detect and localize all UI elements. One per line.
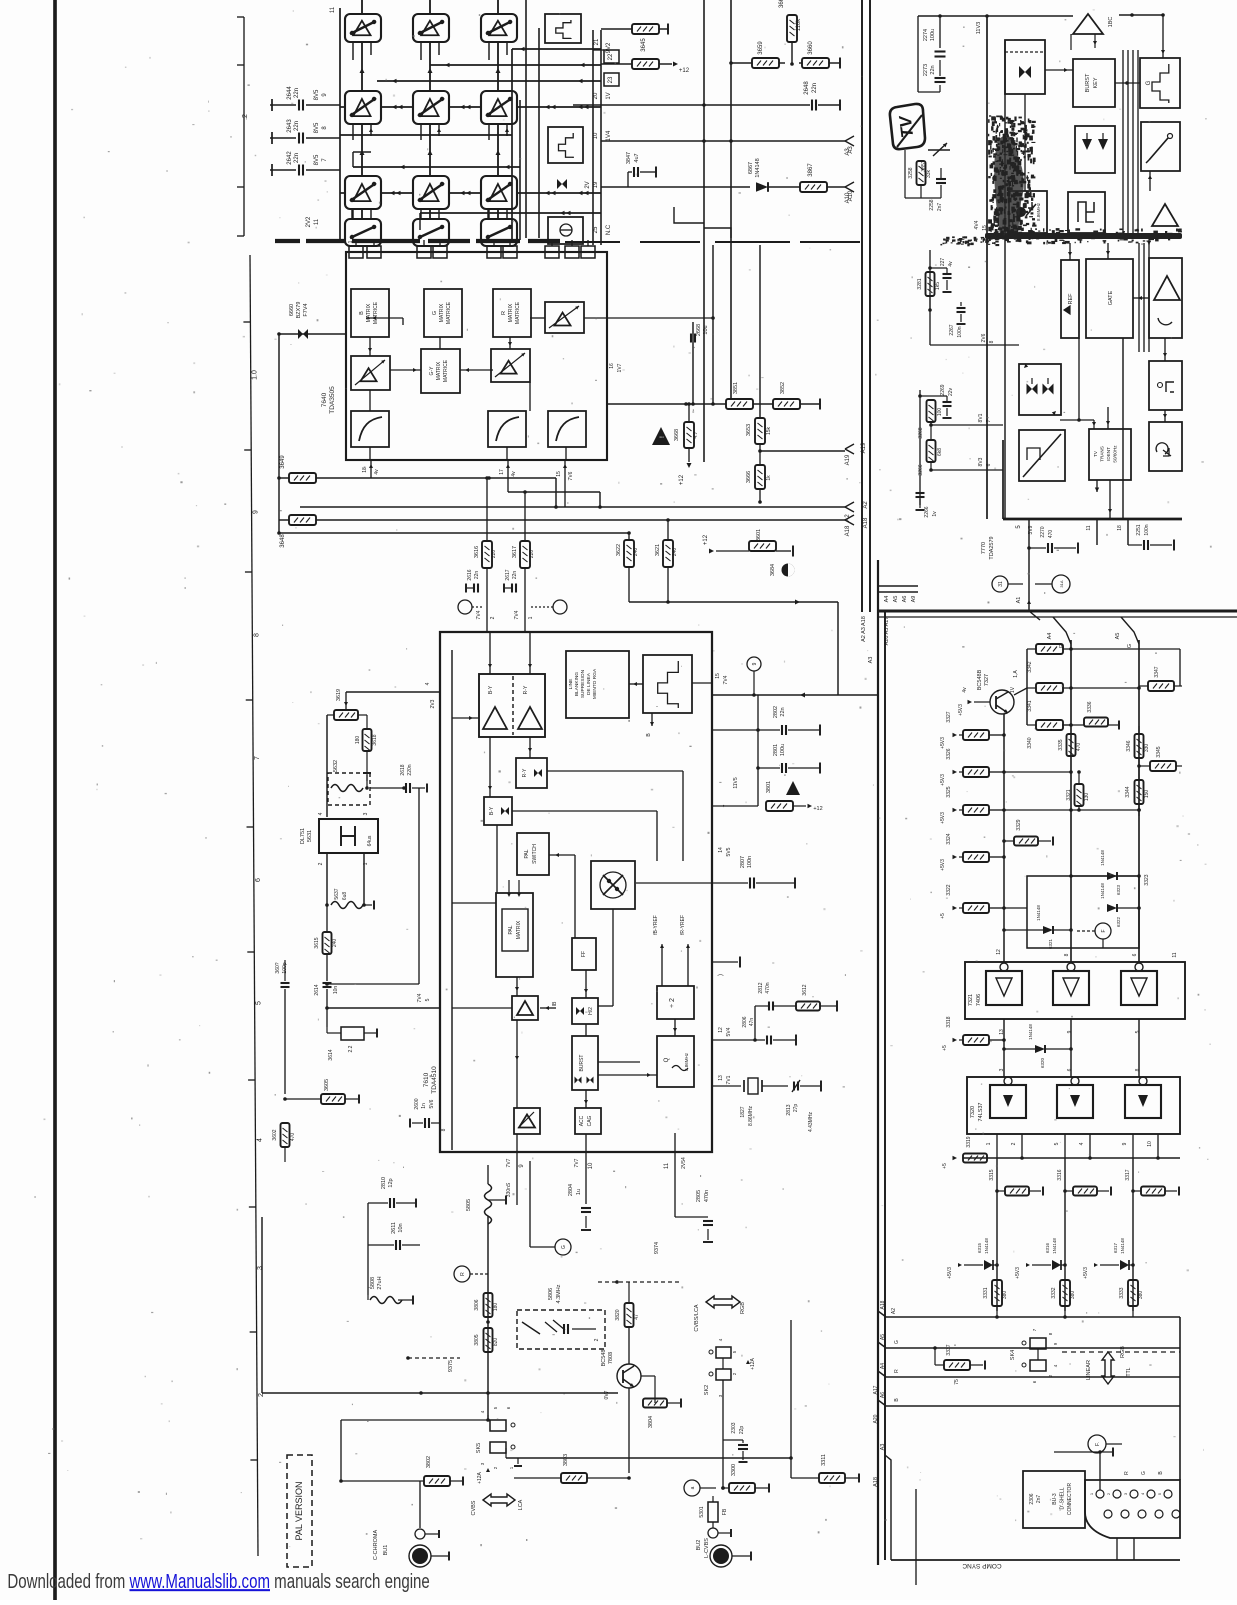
svg-text:3332: 3332 [1051,1287,1057,1298]
svg-text:2804: 2804 [568,1184,574,1196]
svg-text:1: 1 [528,616,534,619]
svg-text:MATRIX: MATRIX [516,920,522,939]
svg-text:FF: FF [581,951,587,957]
svg-text:2V54: 2V54 [681,1157,687,1169]
svg-text:3806: 3806 [474,1299,480,1310]
svg-text:47: 47 [634,1314,640,1320]
svg-text:2617: 2617 [505,569,511,580]
svg-text:3648: 3648 [280,534,286,548]
svg-text:22v: 22v [948,387,954,396]
svg-text:+12: +12 [703,534,709,545]
svg-text:÷ 2: ÷ 2 [669,998,676,1008]
svg-text:7320: 7320 [970,1106,976,1118]
svg-text:4.43MHz: 4.43MHz [808,1112,814,1133]
svg-text:3619: 3619 [336,689,342,701]
svg-text:27uH: 27uH [377,1276,383,1289]
svg-text:2.2: 2.2 [348,1045,354,1052]
svg-text:LINEAR: LINEAR [1086,1360,1092,1380]
svg-text:N.C: N.C [606,224,612,235]
svg-text:TTL: TTL [1126,1367,1132,1376]
svg-text:+5V3: +5V3 [940,859,946,871]
svg-text:A1: A1 [1016,597,1022,604]
svg-text:7V4: 7V4 [723,675,729,684]
svg-text:1N4148: 1N4148 [984,1238,989,1254]
svg-text:2: 2 [318,862,324,865]
svg-text:SUPRESION: SUPRESION [580,669,586,698]
svg-text:3645: 3645 [641,38,647,52]
svg-text:A19: A19 [845,454,851,465]
svg-text:BC548: BC548 [601,1350,607,1367]
svg-text:4v: 4v [374,469,380,475]
svg-text:4: 4 [256,1138,263,1142]
svg-text:fR-YREF: fR-YREF [680,915,686,935]
svg-text:A20: A20 [873,1414,879,1423]
svg-text:2266: 2266 [924,506,930,517]
svg-text:3653: 3653 [746,424,752,436]
svg-text:BU-3: BU-3 [1052,1493,1058,1505]
svg-text:6322: 6322 [1116,916,1121,927]
svg-text:227: 227 [940,258,946,267]
svg-text:CAG: CAG [587,1115,593,1126]
svg-text:3335: 3335 [1058,739,1064,750]
svg-text:3851: 3851 [733,382,739,394]
svg-text:3617: 3617 [512,546,518,558]
svg-text:PAL: PAL [524,849,530,858]
svg-text:47n: 47n [749,1018,755,1027]
svg-text:3344: 3344 [1125,786,1131,797]
svg-text:SWITCH: SWITCH [532,844,538,864]
svg-text:9V2: 9V2 [606,42,612,53]
svg-text:R: R [894,1369,900,1373]
svg-text:75: 75 [954,1379,960,1385]
svg-text:3605: 3605 [324,1079,330,1091]
svg-text:2618: 2618 [400,764,406,775]
svg-text:FB: FB [722,1508,728,1515]
svg-text:7: 7 [416,240,422,243]
svg-text:IDENT: IDENT [1106,447,1111,461]
svg-text:G: G [894,1340,900,1344]
svg-text:B-Y: B-Y [489,806,495,815]
svg-text:2258: 2258 [929,199,935,210]
svg-text:11: 11 [1086,525,1092,530]
svg-text:3684: 3684 [770,564,776,576]
svg-text:A5: A5 [1115,633,1121,640]
svg-text:1V7: 1V7 [617,363,623,372]
svg-text:+12A: +12A [477,1471,483,1483]
svg-text:11: 11 [664,1162,670,1169]
svg-text:RGB: RGB [740,1302,746,1314]
svg-text:3621: 3621 [655,544,661,556]
svg-text:COMP SYNC: COMP SYNC [962,1562,1002,1569]
svg-text:1k: 1k [766,475,772,481]
svg-text:MATRIX: MATRIX [366,303,372,322]
svg-text:A4: A4 [1047,633,1053,640]
svg-text:100: 100 [937,408,943,417]
svg-text:9: 9 [253,510,260,514]
svg-text:+5V3: +5V3 [958,704,964,716]
svg-text:470n: 470n [765,982,771,993]
svg-text:A18: A18 [845,525,851,536]
svg-text:4v: 4v [948,261,954,267]
svg-text:3803: 3803 [563,1454,569,1466]
svg-text:2807: 2807 [740,856,746,868]
svg-text:A3: A3 [848,146,854,154]
svg-text:A20 A3 A17: A20 A3 A17 [884,617,890,646]
svg-text:5301: 5301 [699,1506,705,1517]
svg-text:1N4148: 1N4148 [1120,1238,1125,1254]
svg-text:7327: 7327 [984,674,990,686]
svg-text:BURST: BURST [579,1055,585,1072]
svg-text:2810: 2810 [381,1177,387,1189]
svg-text:B: B [359,311,365,315]
svg-text:27p: 27p [793,1104,799,1113]
svg-text:7770: 7770 [981,542,987,554]
svg-text:2648: 2648 [804,81,810,95]
svg-text:3300: 3300 [731,1464,737,1476]
svg-text:8V5: 8V5 [314,122,320,133]
svg-text:A6: A6 [902,596,908,603]
svg-text:3616: 3616 [474,546,480,558]
svg-text:3327: 3327 [946,711,952,722]
svg-text:IB: IB [552,1001,558,1006]
svg-text:3804: 3804 [648,1416,654,1428]
svg-text:CVBS/LCA: CVBS/LCA [694,1304,700,1332]
svg-text:11: 11 [1172,952,1178,957]
svg-text:RGB: RGB [1120,1346,1126,1358]
svg-text:R: R [1124,1471,1130,1475]
svg-text:22n: 22n [294,153,300,163]
svg-text:3614: 3614 [328,1049,334,1060]
svg-text:+5V3: +5V3 [1015,1267,1021,1279]
svg-text:MATRICE: MATRICE [446,301,452,324]
svg-text:2642: 2642 [287,151,293,165]
svg-text:820: 820 [493,1338,499,1347]
svg-text:C-CHROMA: C-CHROMA [373,1530,379,1561]
svg-text:64us: 64us [367,835,373,846]
svg-text:11V5: 11V5 [733,777,739,789]
svg-text:3317: 3317 [1125,1169,1131,1180]
svg-text:3: 3 [999,1068,1005,1071]
svg-text:DL751: DL751 [300,828,306,844]
svg-text:MATRICE: MATRICE [515,301,521,324]
svg-text:SK4: SK4 [1010,1350,1016,1360]
svg-text:7V7: 7V7 [506,1158,512,1167]
svg-text:22n: 22n [930,65,936,74]
svg-text:7V4: 7V4 [476,610,482,619]
svg-text:3324: 3324 [946,833,952,844]
svg-text:R: R [501,311,507,315]
svg-text:10u: 10u [703,325,709,334]
svg-text:TDA4510: TDA4510 [431,1066,438,1094]
svg-text:7: 7 [486,240,492,243]
svg-text:7V4: 7V4 [417,993,423,1002]
svg-text:B-Y: B-Y [488,685,494,694]
svg-text:1N4148: 1N4148 [1100,883,1105,899]
svg-text:8V3: 8V3 [978,457,984,466]
svg-text:CVBS: CVBS [471,1500,477,1515]
svg-text:7V6: 7V6 [568,471,574,480]
svg-text:1.0: 1.0 [252,370,259,380]
svg-text:5631: 5631 [307,830,313,842]
svg-text:2616: 2616 [467,569,473,580]
svg-text:2303: 2303 [731,1422,737,1433]
svg-text:A3: A3 [868,657,874,664]
svg-text:+12: +12 [679,68,690,74]
svg-text:11: 11 [330,6,336,13]
svg-text:10n: 10n [333,986,339,995]
svg-text:+12: +12 [813,806,822,812]
svg-text:100n: 100n [747,856,753,868]
svg-text:2812: 2812 [758,982,764,993]
svg-text:A19: A19 [861,442,867,453]
svg-text:3337: 3337 [946,1344,952,1355]
svg-text:3852: 3852 [780,382,786,394]
svg-text:2: 2 [1011,1142,1017,1145]
svg-text:R-Y: R-Y [523,685,529,694]
svg-text:18: 18 [1117,525,1123,531]
svg-text:2306: 2306 [1029,1493,1035,1504]
svg-text:5V6: 5V6 [429,1099,435,1108]
svg-text:A18: A18 [873,1477,879,1487]
svg-text:5: 5 [1135,1030,1141,1033]
svg-text:15k: 15k [766,426,772,435]
svg-text:14: 14 [718,847,724,853]
svg-text:1N4148: 1N4148 [1036,905,1041,921]
svg-text:+5: +5 [940,913,946,919]
svg-text:2269: 2269 [940,384,946,395]
svg-text:8: 8 [253,633,260,637]
svg-text:23: 23 [608,76,614,83]
svg-text:7321: 7321 [968,994,974,1006]
svg-text:+12: +12 [679,474,685,485]
svg-text:1N4148: 1N4148 [755,158,761,177]
svg-text:9374: 9374 [654,1242,660,1254]
svg-text:1N4148: 1N4148 [1052,1238,1057,1254]
svg-text:3666: 3666 [746,471,752,483]
svg-text:1,A: 1,A [1013,670,1019,678]
svg-text:3341: 3341 [1027,700,1033,711]
svg-text:3266: 3266 [918,464,924,475]
svg-text:2801: 2801 [773,744,779,756]
svg-text:4V4: 4V4 [974,220,980,229]
svg-text:2n7: 2n7 [1036,1495,1042,1504]
svg-text:7V4: 7V4 [514,610,520,619]
svg-text:8: 8 [1135,1068,1141,1071]
svg-text:MATRICE: MATRICE [443,359,449,382]
svg-text:6660: 6660 [289,304,295,316]
svg-text:3315: 3315 [989,1169,995,1180]
svg-text:2n7: 2n7 [937,203,943,212]
svg-text:4: 4 [318,812,324,815]
svg-text:4.7: 4.7 [693,431,699,438]
svg-text:180: 180 [493,1303,499,1312]
svg-text:PAL: PAL [508,925,514,934]
svg-text:100n: 100n [1144,524,1150,535]
svg-text:100n: 100n [957,326,963,337]
svg-text:3612: 3612 [802,984,808,995]
svg-text:9375: 9375 [448,1360,454,1372]
svg-text:1: 1 [348,240,354,243]
svg-text:TV: TV [1093,450,1098,457]
svg-text:10n: 10n [398,1223,404,1232]
svg-text:+5: +5 [942,1045,948,1051]
svg-text:1827: 1827 [740,1106,746,1117]
svg-text:6867: 6867 [748,162,754,174]
svg-text:470n: 470n [704,1190,710,1202]
svg-text:3622: 3622 [616,544,622,556]
svg-text:7406: 7406 [976,994,982,1006]
svg-text:16: 16 [609,363,615,369]
svg-text:2270: 2270 [1040,526,1046,537]
svg-text:3346: 3346 [1126,740,1132,751]
svg-text:3319: 3319 [966,1136,972,1147]
svg-text:380: 380 [1070,1291,1076,1300]
svg-text:MATRIX: MATRIX [439,303,445,322]
svg-text:3820: 3820 [615,1309,621,1320]
svg-text:6315: 6315 [977,1242,982,1253]
svg-text:1: 1 [986,1142,992,1145]
svg-text:A4: A4 [884,596,890,603]
svg-text:5637: 5637 [334,888,340,899]
svg-text:3323: 3323 [1144,874,1150,885]
svg-text:3336: 3336 [1087,701,1093,712]
svg-text:6321: 6321 [1048,938,1053,949]
svg-text:15: 15 [715,673,721,679]
svg-text:2V3: 2V3 [430,699,436,708]
svg-text:2802: 2802 [773,706,779,718]
svg-text:ACC: ACC [579,1115,585,1126]
svg-text:8.86MHz: 8.86MHz [684,1052,689,1071]
svg-text:7610: 7610 [423,1072,430,1087]
svg-text:2614: 2614 [314,984,320,995]
svg-text:5V5: 5V5 [726,847,732,856]
svg-text:3333: 3333 [1119,1287,1125,1298]
svg-text:4.3MHz: 4.3MHz [556,1284,562,1303]
svg-text:7640: 7640 [321,392,328,407]
svg-text:+5V3: +5V3 [940,774,946,786]
svg-text:3659: 3659 [758,41,764,55]
svg-text:3321: 3321 [1066,789,1072,800]
svg-text:5808: 5808 [370,1277,376,1289]
svg-text:7: 7 [723,804,729,807]
svg-text:Downloaded from www.Manualslib: Downloaded from www.Manualslib.com manua… [7,1570,429,1593]
svg-text:7803: 7803 [608,1352,614,1364]
svg-text:5: 5 [256,1001,263,1005]
svg-text:3668: 3668 [674,429,680,441]
svg-text:10: 10 [588,1162,594,1169]
svg-text:A9: A9 [911,596,917,603]
svg-text:2: 2 [594,1338,600,1341]
svg-text:1u: 1u [576,1189,582,1195]
svg-text:2V2: 2V2 [306,216,312,227]
svg-text:7V1: 7V1 [726,1075,732,1084]
svg-text:22n: 22n [812,83,818,93]
svg-text:fB-YREF: fB-YREF [653,915,659,935]
svg-text:3322: 3322 [946,884,952,895]
svg-text:3347: 3347 [1154,666,1160,677]
svg-text:2813: 2813 [786,1104,792,1115]
svg-text:6: 6 [1067,1068,1073,1071]
svg-text:1V: 1V [606,92,612,99]
svg-text:7: 7 [986,419,992,422]
svg-text:GATE: GATE [1108,290,1114,305]
svg-text:2V: 2V [585,181,591,188]
svg-text:1N4148: 1N4148 [1028,1024,1033,1040]
svg-text:+12A: +12A [750,1357,756,1369]
svg-text:LCA: LCA [518,1499,524,1510]
svg-text:360?: 360? [275,962,281,973]
svg-text:6: 6 [986,463,992,466]
svg-text:8V5: 8V5 [314,89,320,100]
svg-text:3801: 3801 [766,781,772,793]
svg-text:3618: 3618 [372,734,378,745]
svg-text:3329: 3329 [1016,819,1022,830]
svg-text:21: 21 [594,38,600,45]
svg-text:11V3: 11V3 [976,22,982,34]
svg-text:F.: F. [1095,1442,1101,1446]
svg-text:3601: 3601 [756,529,762,541]
svg-text:G: G [1127,644,1133,648]
svg-text:470: 470 [1076,743,1082,752]
svg-text:4: 4 [425,682,431,685]
svg-text:A17: A17 [873,1385,879,1394]
svg-text:3345: 3345 [1156,746,1162,757]
svg-text:330: 330 [1144,744,1150,753]
svg-text:+5: +5 [942,1163,948,1169]
svg-text:470: 470 [290,1133,296,1142]
svg-text:1v: 1v [932,511,938,517]
svg-text:4v: 4v [511,471,517,477]
svg-text:6: 6 [1132,953,1138,956]
svg-text:8: 8 [441,1128,447,1131]
svg-text:6: 6 [255,878,262,882]
svg-text:+5V3: +5V3 [940,737,946,749]
svg-text:4v: 4v [962,687,968,693]
svg-text:H/2: H/2 [588,1007,594,1015]
svg-text:BURST: BURST [1085,73,1091,92]
svg-text:A4: A4 [880,1363,886,1369]
svg-text:+5V3: +5V3 [940,812,946,824]
svg-text:5805: 5805 [466,1199,472,1211]
svg-text:100u: 100u [780,744,786,756]
svg-text:2V6: 2V6 [981,333,987,342]
svg-text:3615: 3615 [314,937,320,948]
svg-text:15: 15 [982,225,988,231]
svg-text:L-CVBS: L-CVBS [704,1538,710,1558]
svg-text:220: 220 [491,550,497,559]
svg-text:31A: 31A [1059,580,1064,587]
svg-text:3258: 3258 [908,167,914,178]
svg-text:100u: 100u [930,29,936,41]
svg-text:F7V4: F7V4 [303,303,309,316]
svg-text:1N4148: 1N4148 [1100,850,1105,866]
svg-text:110k: 110k [796,18,802,32]
svg-text:22p: 22p [739,1426,745,1435]
svg-text:5: 5 [425,998,431,1001]
svg-text:1k5: 1k5 [935,282,941,290]
svg-text:A5: A5 [893,596,899,603]
svg-text:380: 380 [1138,1291,1144,1300]
svg-text:F: F [1101,929,1107,932]
svg-text:BU2: BU2 [696,1540,702,1551]
svg-text:470: 470 [1048,530,1054,539]
svg-text:G: G [432,311,438,315]
svg-text:R-Y: R-Y [522,768,528,777]
svg-text:9: 9 [752,662,758,665]
svg-text:BU1: BU1 [383,1545,389,1556]
svg-text:BC548B: BC548B [977,669,983,690]
svg-text:Q: Q [664,1057,670,1062]
